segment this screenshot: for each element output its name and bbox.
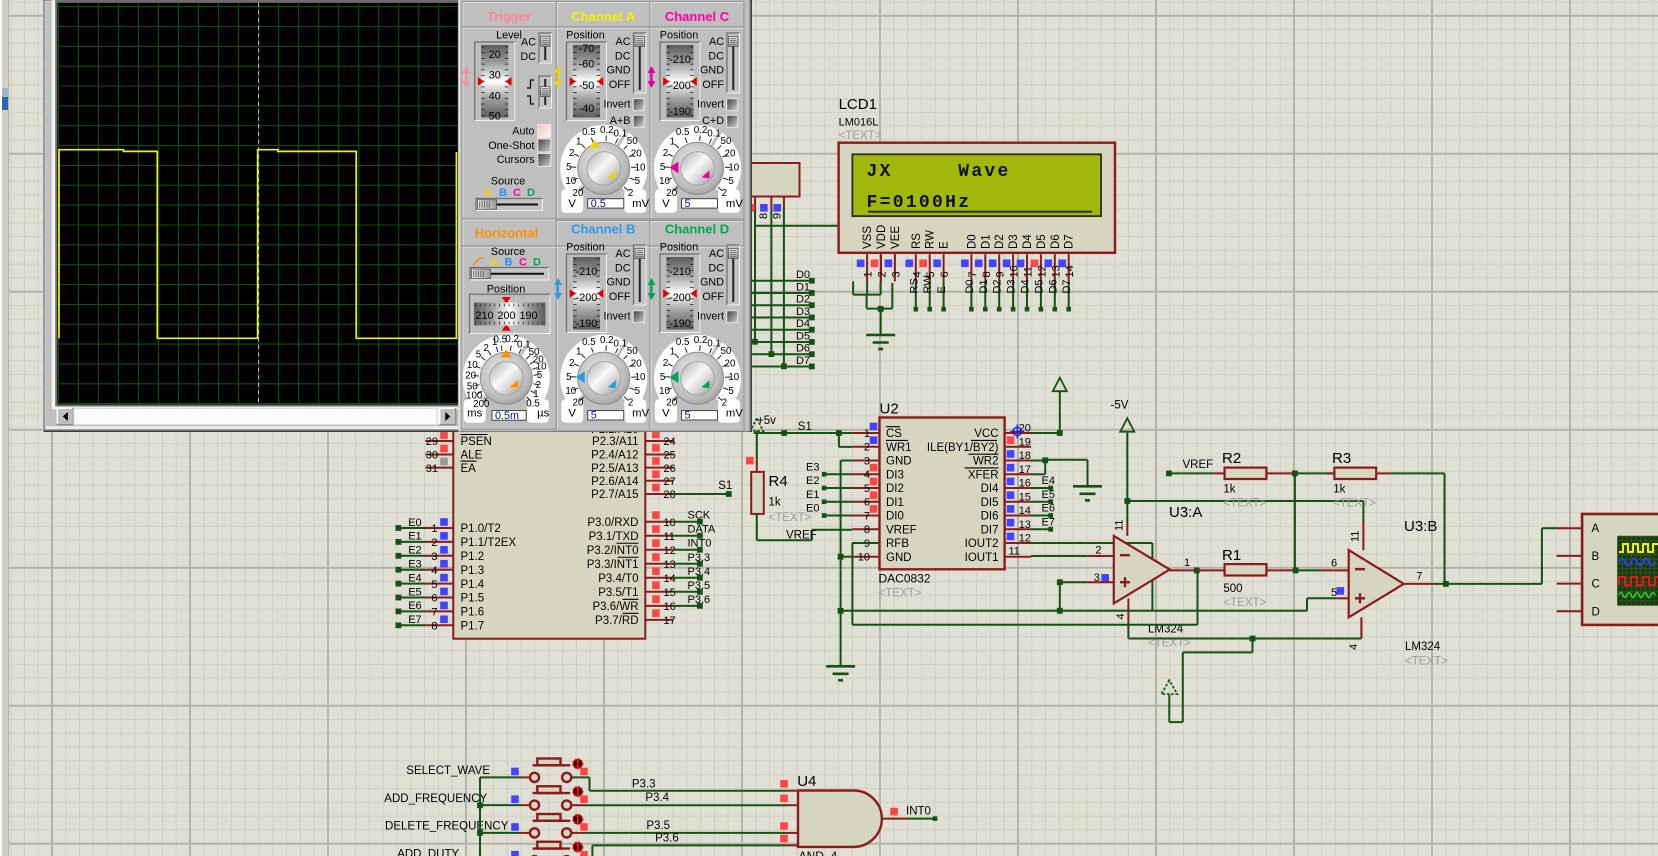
svg-text:D2: D2 [796,294,810,306]
svg-text:1: 1 [670,137,675,148]
svg-text:ILE(BY1/BY2): ILE(BY1/BY2) [927,442,999,454]
button ADD_FREQUENCY [480,804,520,806]
mini scope screen icon [1618,536,1658,605]
svg-text:LM324: LM324 [1405,641,1441,653]
svg-text:DC: DC [708,262,724,274]
LCD pins + squares + numbers [866,254,868,281]
svg-text:11: 11 [1114,520,1126,531]
R4 resistor 1k [756,431,758,460]
svg-text:12: 12 [1019,533,1031,545]
R3 feedback wire down to output [1444,473,1446,584]
svg-text:10: 10 [565,176,576,187]
svg-text:B: B [505,257,513,269]
svg-text:0.2: 0.2 [600,125,614,136]
svg-text:10: 10 [728,372,739,383]
svg-text:50: 50 [721,346,732,357]
svg-text:0.2: 0.2 [694,335,708,346]
svg-text:<TEXT>: <TEXT> [1333,498,1376,510]
wire to LCD left [755,225,839,227]
svg-text:DC: DC [708,50,724,62]
svg-text:mV: mV [726,408,743,420]
microcontroller U1 body [453,420,645,639]
svg-text:Position: Position [566,30,604,42]
left UI strip [0,0,2,856]
svg-text:5: 5 [728,176,734,187]
svg-text:A: A [490,257,498,269]
svg-text:11: 11 [1009,545,1020,557]
svg-text:P1.1/T2EX: P1.1/T2EX [461,537,517,549]
+5v power arrow [750,418,763,431]
svg-text:D0: D0 [966,234,978,249]
svg-text:13: 13 [664,559,676,571]
svg-text:5: 5 [685,410,691,422]
svg-text:0.1: 0.1 [613,338,627,349]
svg-text:0.1: 0.1 [613,129,627,140]
svg-text:D0: D0 [796,269,810,281]
svg-text:AND_4: AND_4 [799,849,838,856]
svg-text:15: 15 [664,587,676,599]
svg-text:20: 20 [725,358,736,369]
svg-text:Trigger: Trigger [487,9,531,24]
svg-text:<TEXT>: <TEXT> [1223,597,1266,609]
U3:B pin5 stub [1336,597,1349,599]
svg-text:RS: RS [911,233,923,249]
svg-text:GND: GND [607,65,631,77]
svg-text:6: 6 [431,593,437,605]
svg-text:0.1: 0.1 [707,338,721,349]
svg-text:10: 10 [659,386,670,397]
U2 VCC to +5 arrow [1031,432,1060,434]
E0-E3 wires to U2 [824,473,852,475]
svg-text:One-Shot: One-Shot [488,140,534,152]
svg-text:D6: D6 [1050,234,1062,249]
svg-text:6: 6 [864,497,870,509]
svg-text:AC: AC [521,37,536,49]
svg-text:E2: E2 [408,545,421,557]
svg-text:-190: -190 [669,318,691,330]
svg-text:40: 40 [489,91,501,103]
svg-text:2: 2 [877,271,889,277]
svg-text:50: 50 [627,136,638,147]
svg-text:AC: AC [616,248,631,260]
svg-text:11: 11 [664,531,675,543]
svg-text:5: 5 [685,198,691,210]
waveform trace [59,150,456,339]
U1 pins 1-8 P1.0-P1.7 with E0-E7 nets [398,527,425,529]
LCD data/control wires down to net dots [915,281,917,309]
svg-text:E1: E1 [408,531,421,543]
svg-text:DI7: DI7 [981,524,999,536]
svg-text:190: 190 [519,310,537,322]
svg-text:INT0: INT0 [688,538,712,550]
svg-text:P3.3: P3.3 [632,779,656,791]
svg-text:D1: D1 [796,281,810,293]
scrollbar [57,408,456,424]
svg-text:10: 10 [728,162,739,173]
svg-text:DI5: DI5 [981,497,999,509]
svg-text:8: 8 [431,621,437,633]
svg-text:PSEN: PSEN [461,436,492,448]
svg-text:D4: D4 [1022,234,1034,249]
svg-text:Cursors: Cursors [497,154,535,166]
svg-text:DC: DC [615,262,631,274]
svg-text:7: 7 [967,271,979,277]
svg-text:GND: GND [700,65,724,77]
svg-text:IOUT2: IOUT2 [965,538,999,550]
LCD screen [852,154,1101,216]
svg-text:D7: D7 [1061,279,1073,293]
wires from pins 8,9 down to D5-D7 [754,210,756,342]
svg-text:8: 8 [864,524,870,536]
svg-text:ADD_FREQUENCY: ADD_FREQUENCY [384,793,487,805]
svg-text:30: 30 [426,450,438,462]
svg-text:V: V [662,198,670,210]
svg-text:P3.4: P3.4 [645,792,669,804]
svg-text:5: 5 [431,579,437,591]
V- rail to op-amps [1128,638,1252,640]
svg-text:1: 1 [1184,557,1190,569]
V+ rail wire to U3:B pin 11 [1127,500,1363,502]
svg-text:0.1: 0.1 [707,129,721,140]
svg-text:Channel B: Channel B [571,222,635,237]
svg-text:P3.3/INT1: P3.3/INT1 [587,559,639,571]
svg-text:E: E [936,286,948,293]
svg-text:5: 5 [566,162,572,173]
svg-text:D0: D0 [964,279,976,293]
svg-text:Position: Position [566,242,604,254]
svg-text:5: 5 [635,176,641,187]
svg-text:E0: E0 [806,503,819,515]
svg-text:DI3: DI3 [886,469,904,481]
button bus vertical [479,777,481,856]
svg-text:2: 2 [663,148,668,159]
svg-text:<TEXT>: <TEXT> [839,130,882,142]
svg-text:6: 6 [939,271,951,277]
svg-text:D: D [527,187,535,199]
svg-text:30: 30 [489,70,501,82]
svg-text:Level: Level [496,30,522,42]
svg-text:4: 4 [1115,613,1127,619]
svg-text:E7: E7 [408,614,421,626]
svg-text:E4: E4 [408,572,421,584]
resistor R2 1k [1214,472,1225,474]
svg-text:210: 210 [475,310,493,322]
svg-text:P2.6/A14: P2.6/A14 [591,476,639,488]
svg-text:DI0: DI0 [886,511,904,523]
svg-text:0.2: 0.2 [694,125,708,136]
svg-text:E3: E3 [408,559,421,571]
svg-text:VREF: VREF [886,524,917,536]
svg-text:D7: D7 [796,355,810,367]
svg-text:0.5m: 0.5m [495,410,519,422]
svg-text:20: 20 [465,371,476,382]
svg-text:OFF: OFF [609,79,631,91]
svg-text:SCK: SCK [688,510,711,522]
svg-text:A: A [484,187,492,199]
svg-text:10: 10 [635,162,646,173]
svg-text:6: 6 [1331,558,1337,570]
svg-text:ADD_DUTY: ADD_DUTY [397,848,459,856]
U3:B output pin 7 [1404,583,1433,585]
svg-text:D3: D3 [1008,234,1020,249]
scope control panel [458,0,749,432]
svg-text:Invert: Invert [697,311,724,323]
svg-text:P3.7/RD: P3.7/RD [595,615,638,627]
svg-text:-210: -210 [576,266,598,278]
svg-text:RFB: RFB [886,538,909,550]
svg-text:28: 28 [664,489,676,501]
svg-text:3: 3 [864,455,870,467]
svg-text:SELECT_WAVE: SELECT_WAVE [406,765,490,777]
resistor R3 1k [1327,472,1334,474]
svg-text:<TEXT>: <TEXT> [1223,498,1266,510]
svg-text:14: 14 [1019,505,1031,517]
svg-text:5: 5 [635,386,641,397]
svg-text:DI4: DI4 [981,483,1000,495]
svg-text:AC: AC [616,36,631,48]
svg-text:D7: D7 [1064,234,1076,249]
svg-text:5: 5 [660,162,666,173]
svg-text:P3.5: P3.5 [688,580,711,592]
svg-text:1k: 1k [1333,484,1345,496]
svg-text:D1: D1 [980,234,992,249]
svg-text:D2: D2 [994,234,1006,249]
svg-text:0.5: 0.5 [591,198,606,210]
RFB feedback wire (line2) [851,543,853,625]
ground under LCD [866,334,895,337]
svg-text:P3.2/INT0: P3.2/INT0 [587,545,639,557]
svg-text:DC: DC [615,50,631,62]
svg-text:-200: -200 [669,80,691,92]
panel: Channel B [557,221,651,432]
U3:A pin 11 [1126,501,1128,522]
svg-text:Channel D: Channel D [665,222,729,237]
svg-text:16: 16 [664,601,676,613]
component block behind scope window (pins 8,9) [750,163,800,197]
svg-text:B: B [499,187,507,199]
svg-text:P3.4: P3.4 [688,566,711,578]
svg-text:CS: CS [886,428,902,440]
svg-text:E6: E6 [1042,503,1055,515]
svg-text:VCC: VCC [974,428,998,440]
svg-text:P1.3: P1.3 [461,565,485,577]
svg-text:P2.7/A15: P2.7/A15 [591,489,638,501]
svg-text:mV: mV [632,408,649,420]
svg-text:U4: U4 [797,773,816,790]
svg-text:<TEXT>: <TEXT> [879,588,922,600]
svg-text:Invert: Invert [603,99,630,111]
svg-text:A: A [1592,523,1600,535]
svg-text:0.5: 0.5 [582,337,596,348]
svg-text:2: 2 [431,537,437,549]
svg-text:P1.0/T2: P1.0/T2 [461,523,501,535]
svg-text:1k: 1k [1223,484,1235,496]
svg-text:mV: mV [726,198,743,210]
junction to R1/pin6 [1294,473,1296,570]
U1 pins 10-17 P3.0-P3.7 [645,521,673,523]
svg-text:10: 10 [659,176,670,187]
svg-text:2: 2 [569,148,574,159]
svg-text:P2.5/A13: P2.5/A13 [591,463,638,475]
panel: Channel D [650,221,744,432]
svg-text:18: 18 [1019,450,1031,462]
svg-text:D2: D2 [992,279,1004,293]
panel: Channel C [650,2,744,220]
svg-text:10: 10 [664,517,676,529]
U4 output INT0 [882,818,908,820]
svg-text:P1.7: P1.7 [461,621,485,633]
svg-text:R4: R4 [769,473,788,490]
svg-text:D: D [1592,606,1600,618]
svg-text:S1: S1 [798,421,812,433]
svg-text:mV: mV [632,198,649,210]
svg-text:Invert: Invert [603,311,630,323]
svg-text:DI6: DI6 [981,511,999,523]
svg-text:10: 10 [858,552,870,564]
svg-text:24: 24 [664,436,676,448]
svg-text:V: V [662,408,670,420]
svg-text:EA: EA [461,463,477,475]
svg-text:-5V: -5V [1111,400,1129,412]
svg-text:20: 20 [725,149,736,160]
svg-text:VEE: VEE [890,226,902,249]
origin marker at pin 19/20 [1010,425,1024,439]
button SELECT_WAVE [480,776,520,778]
svg-text:LM016L: LM016L [839,117,879,129]
svg-text:1: 1 [670,346,675,357]
E4-E7 wires from U2 [1031,487,1051,489]
svg-text:3: 3 [431,551,437,563]
svg-text:VSS: VSS [862,226,874,249]
svg-text:R2: R2 [1222,450,1241,467]
svg-text:R1: R1 [1222,547,1241,564]
svg-text:C: C [519,257,527,269]
svg-text:+5v: +5v [757,415,776,427]
svg-text:V: V [568,198,576,210]
svg-text:7: 7 [1416,571,1422,583]
svg-text:-40: -40 [579,103,595,115]
svg-text:Horizontal: Horizontal [475,226,539,241]
svg-text:20: 20 [489,49,501,61]
svg-text:P3.5: P3.5 [646,820,670,832]
svg-text:19: 19 [1019,436,1031,448]
svg-text:5: 5 [591,410,597,422]
svg-text:8: 8 [981,271,993,277]
svg-text:1: 1 [864,428,870,440]
svg-text:E2: E2 [806,475,819,487]
svg-text:R3: R3 [1332,450,1351,467]
svg-text:IOUT1: IOUT1 [965,552,999,564]
svg-text:2: 2 [483,343,488,354]
svg-text:500: 500 [1223,583,1242,595]
wire S1 net from pin 28 [673,493,729,495]
svg-text:OFF: OFF [609,291,631,303]
scope screen [52,0,462,410]
svg-text:1: 1 [576,137,581,148]
svg-text:10: 10 [565,386,576,397]
svg-text:P3.3: P3.3 [688,552,711,564]
svg-text:0.2: 0.2 [600,335,614,346]
svg-text:5: 5 [660,372,666,383]
svg-text:D5: D5 [1033,279,1045,293]
LCD power pin wiring to ground [852,281,854,294]
svg-text:B: B [1592,551,1600,563]
svg-text:0.5: 0.5 [582,127,596,138]
svg-text:50: 50 [489,111,501,123]
U3:A pin4 [1127,599,1129,625]
panel: Channel A [557,2,651,220]
svg-text:Auto: Auto [512,125,534,137]
svg-text:U3:A: U3:A [1169,504,1202,521]
cursor dashed line [258,3,260,404]
svg-text:DAC0832: DAC0832 [879,572,931,586]
D0-D7 net wires [751,280,812,282]
svg-text:P2.4/A12: P2.4/A12 [591,450,638,462]
svg-text:1: 1 [576,346,581,357]
svg-text:U3:B: U3:B [1404,518,1437,535]
svg-text:VREF: VREF [1183,459,1214,471]
panel: Trigger section [462,2,557,220]
svg-text:Position: Position [660,242,698,254]
svg-text:S1: S1 [718,480,732,492]
svg-text:E1: E1 [806,489,819,501]
svg-text:P1.5: P1.5 [461,593,485,605]
svg-text:29: 29 [426,436,438,448]
U3:A pin3 + wire [1060,581,1088,583]
svg-text:D1: D1 [978,279,990,293]
svg-text:5: 5 [476,350,482,361]
svg-text:C: C [1592,579,1600,591]
svg-text:P3.6: P3.6 [688,594,711,606]
svg-text:-50: -50 [579,80,595,92]
svg-text:VDD: VDD [876,225,888,249]
svg-text:P1.6: P1.6 [461,607,485,619]
svg-text:50: 50 [721,136,732,147]
svg-text:-210: -210 [669,266,691,278]
svg-text:5: 5 [566,372,572,383]
svg-text:9: 9 [995,271,1007,277]
svg-text:D3: D3 [796,306,810,318]
svg-text:4: 4 [1348,644,1360,650]
svg-text:OFF: OFF [702,291,724,303]
svg-text:27: 27 [664,476,676,488]
svg-text:-190: -190 [576,318,598,330]
svg-text:15: 15 [1019,491,1031,503]
svg-text:DI2: DI2 [886,483,904,495]
svg-text:1: 1 [863,271,875,277]
svg-text:E5: E5 [408,586,421,598]
svg-text:E7: E7 [1042,516,1055,528]
svg-text:DI1: DI1 [886,497,904,509]
svg-text:AC: AC [709,248,724,260]
svg-text:Position: Position [660,30,698,42]
svg-text:P3.4/T0: P3.4/T0 [598,573,638,585]
svg-text:-190: -190 [669,106,691,118]
svg-text:10: 10 [635,372,646,383]
svg-text:U2: U2 [880,401,899,418]
R4 bottom to VREF wire [756,514,758,540]
svg-text:P3.6/WR: P3.6/WR [592,601,638,613]
svg-text:5: 5 [728,386,734,397]
svg-text:8: 8 [758,213,770,219]
svg-text:16: 16 [1019,478,1031,490]
svg-text:2: 2 [864,442,870,454]
svg-text:25: 25 [664,450,676,462]
svg-text:0.5: 0.5 [676,337,690,348]
svg-text:E0: E0 [408,517,421,529]
svg-text:2: 2 [1095,545,1101,557]
svg-text:E: E [939,241,951,249]
